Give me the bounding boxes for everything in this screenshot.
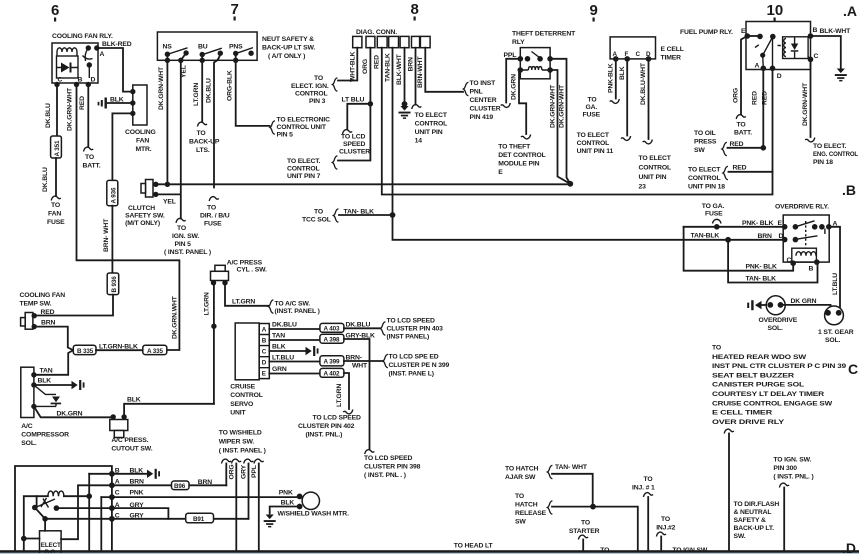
svg-text:LTS.: LTS. (196, 147, 210, 154)
svg-text:CANISTER PURGE SOL: CANISTER PURGE SOL (712, 382, 804, 389)
wire WHT-BLK to elect ign control pin 3 (338, 48, 357, 81)
connector A351 (51, 136, 62, 158)
svg-text:DIAG. CONN.: DIAG. CONN. (356, 29, 397, 36)
svg-text:A/C: A/C (21, 423, 32, 430)
cooling fan relay diode (57, 56, 79, 78)
wire RED to batt (87, 85, 89, 148)
svg-text:BATT.: BATT. (83, 163, 101, 170)
svg-text:BLK: BLK (619, 66, 626, 80)
svg-text:PNK-BLK: PNK-BLK (608, 63, 615, 93)
connector B936 (107, 273, 119, 295)
wire ORG (235, 464, 237, 552)
connector A399 (320, 356, 344, 366)
svg-text:INST PNL CTR CLUSTER P C PIN: INST PNL CTR CLUSTER P C PIN 39 (712, 363, 846, 370)
svg-text:NEUT SAFETY &: NEUT SAFETY & (262, 36, 314, 43)
svg-text:CLUSTER PE N 399: CLUSTER PE N 399 (389, 362, 450, 369)
wire TAN-WHT (552, 474, 593, 507)
svg-text:TO INST: TO INST (470, 80, 497, 87)
svg-text:TO ELECT: TO ELECT (688, 167, 721, 174)
connector A403 (320, 323, 344, 332)
svg-text:CYL . SW.: CYL . SW. (237, 267, 268, 274)
svg-text:BRN: BRN (41, 320, 56, 327)
wire DK.GRN-WHT long from relay B (77, 85, 180, 351)
svg-text:CLUTCH: CLUTCH (128, 205, 155, 212)
svg-text:COOLING FAN RLY.: COOLING FAN RLY. (52, 33, 113, 40)
svg-text:YEL: YEL (181, 65, 188, 78)
windshield washer motor (302, 492, 319, 509)
wire LT.GRN to back-up lts (201, 55, 203, 122)
svg-text:INJ.#2: INJ.#2 (656, 525, 675, 532)
svg-text:LT.GRN: LT.GRN (204, 292, 211, 315)
svg-text:TO: TO (581, 520, 590, 527)
svg-text:TO HEAD LT: TO HEAD LT (454, 543, 494, 550)
svg-text:NS: NS (163, 44, 173, 51)
wire BLK from cutout switch up (124, 404, 214, 417)
wire BLK-WHT to ground (404, 48, 406, 103)
connector A402 (320, 368, 344, 377)
svg-text:CLUSTER: CLUSTER (470, 106, 501, 113)
neutral safety switch box (157, 32, 257, 60)
svg-text:DK.GRN-WHT: DK.GRN-WHT (558, 84, 565, 128)
svg-text:PIN 3: PIN 3 (309, 98, 326, 105)
svg-text:GRN: GRN (272, 366, 287, 373)
svg-text:COOLING FAN: COOLING FAN (20, 292, 66, 299)
svg-text:SPEED: SPEED (343, 141, 366, 148)
svg-text:ORG: ORG (362, 59, 369, 74)
svg-text:RED: RED (41, 309, 55, 316)
ground at overdrive sol (762, 304, 767, 306)
connector A335 (143, 345, 167, 354)
wire RED to oil press sw (728, 68, 764, 148)
svg-text:A 403: A 403 (324, 326, 340, 333)
svg-text:TO ELECT: TO ELECT (639, 155, 672, 162)
svg-text:DK.GRN.WHT: DK.GRN.WHT (172, 295, 179, 339)
svg-text:A 936: A 936 (111, 187, 118, 203)
connector row C GRY with B91 (45, 518, 248, 520)
svg-text:PNK: PNK (130, 490, 144, 497)
connector A936 (107, 180, 118, 205)
svg-text:LT.BLU: LT.BLU (272, 355, 294, 362)
wire PPL (506, 59, 520, 103)
svg-text:CLUSTER PIN 403: CLUSTER PIN 403 (387, 326, 444, 333)
svg-text:UNIT PIN 18: UNIT PIN 18 (688, 184, 725, 191)
harness dot feed (21, 536, 27, 542)
svg-text:LT.GRN: LT.GRN (336, 384, 343, 407)
wire DK.BLU-WHT to elect control unit pin 23 (648, 59, 650, 139)
svg-text:BLK: BLK (281, 500, 295, 507)
wire hatch release to bus (552, 507, 638, 551)
wire DK.GRN-WHT pair from theft relay (550, 59, 570, 184)
svg-text:UNIT PIN: UNIT PIN (415, 129, 443, 136)
svg-text:FUSE: FUSE (204, 221, 222, 228)
svg-text:DK GRN: DK GRN (791, 298, 817, 305)
svg-text:TCC SOL: TCC SOL (302, 217, 331, 224)
svg-text:BLK: BLK (127, 397, 141, 404)
svg-text:PIN 5: PIN 5 (175, 241, 192, 248)
svg-text:CONTROL: CONTROL (577, 140, 610, 147)
e-cell timer box (610, 37, 655, 59)
svg-text:TO: TO (588, 97, 597, 104)
svg-text:SOL.: SOL. (825, 337, 841, 344)
svg-text:D: D (91, 77, 96, 84)
svg-text:BLK-RED: BLK-RED (102, 41, 132, 48)
svg-text:AJAR SW: AJAR SW (505, 474, 536, 481)
svg-text:SOL.: SOL. (21, 440, 37, 447)
svg-text:PIN 18: PIN 18 (813, 159, 833, 166)
svg-text:B 335: B 335 (77, 348, 94, 355)
svg-text:CONTROL: CONTROL (639, 165, 672, 172)
svg-text:FUSE: FUSE (47, 219, 65, 226)
svg-text:DK.GRN: DK.GRN (511, 74, 518, 100)
svg-text:CRUISE: CRUISE (230, 384, 255, 391)
svg-text:STARTER: STARTER (569, 528, 600, 535)
svg-text:DK.BLU: DK.BLU (45, 103, 52, 128)
svg-text:OVER DRIVE RLY: OVER DRIVE RLY (712, 419, 785, 426)
harness vertical wires (88, 474, 90, 551)
svg-text:TO ELECTRONIC: TO ELECTRONIC (277, 117, 331, 124)
cooling fan relay switch (86, 45, 91, 50)
svg-text:DK.GRN-WHT: DK.GRN-WHT (802, 82, 809, 126)
svg-text:(M/T ONLY): (M/T ONLY) (125, 220, 160, 227)
svg-text:TO IGN. SW.: TO IGN. SW. (773, 457, 811, 464)
svg-text:ELECT: ELECT (41, 542, 61, 549)
svg-text:ORG: ORG (228, 464, 235, 479)
svg-text:ENG. CONTROL: ENG. CONTROL (813, 151, 858, 158)
svg-text:TIMER: TIMER (661, 55, 682, 62)
svg-text:BATT.: BATT. (734, 130, 752, 137)
cooling fan motor connector (133, 85, 147, 125)
svg-text:ORG: ORG (733, 88, 740, 103)
svg-text:TO HATCH: TO HATCH (505, 466, 539, 473)
svg-text:FUSE: FUSE (705, 211, 723, 218)
svg-text:C: C (115, 490, 120, 497)
wire ORG to elect control unit pin 7 (338, 48, 370, 161)
svg-text:TAN: TAN (272, 333, 285, 340)
svg-text:1 ST. GEAR: 1 ST. GEAR (818, 329, 854, 336)
svg-text:TAN- WHT: TAN- WHT (555, 464, 588, 471)
svg-text:W/SHIELD WASH MTR.: W/SHIELD WASH MTR. (278, 511, 350, 518)
1st gear sol (825, 306, 844, 325)
svg-text:TAN-BLK: TAN-BLK (384, 53, 391, 82)
wire LT.BLU from pin A to 1st gear sol (829, 227, 840, 311)
svg-text:CLUSTER PIN 402: CLUSTER PIN 402 (298, 423, 355, 430)
svg-text:& NEUTRAL: & NEUTRAL (734, 509, 772, 516)
svg-text:BRN: BRN (758, 233, 773, 240)
svg-text:TO A/C SW.: TO A/C SW. (275, 301, 311, 308)
wire BRN-WHT to inst pnl center cluster (425, 48, 463, 92)
svg-text:( INST. PANEL ): ( INST. PANEL ) (164, 249, 211, 256)
wire YEL from box to ign switch (156, 53, 186, 218)
svg-text:PIN 419: PIN 419 (470, 114, 494, 121)
svg-text:FUEL PUMP RLY.: FUEL PUMP RLY. (680, 29, 733, 36)
svg-text:SEAT BELT BUZZER: SEAT BELT BUZZER (712, 372, 794, 379)
relay coil and diode (783, 37, 809, 59)
connector B96 (172, 481, 190, 490)
wire LT.GRN to A/C SW (225, 283, 268, 306)
svg-text:A: A (115, 478, 120, 485)
svg-text:ORG-BLK: ORG-BLK (227, 70, 234, 101)
svg-text:A: A (100, 51, 105, 58)
svg-text:CONTROL UNIT: CONTROL UNIT (277, 124, 327, 131)
svg-text:D: D (262, 360, 267, 367)
wire DK.GRN to cutout switch (34, 406, 113, 417)
svg-text:FUSE: FUSE (583, 112, 601, 119)
svg-text:HEATED REAR WDO SW: HEATED REAR WDO SW (712, 354, 807, 361)
svg-text:A/C PRESS.: A/C PRESS. (111, 437, 148, 444)
svg-text:TO W/SHIELD: TO W/SHIELD (219, 430, 262, 437)
svg-text:INJ. # 1: INJ. # 1 (632, 485, 655, 492)
svg-text:BLK-WHT: BLK-WHT (820, 28, 852, 35)
wire BLK-RED from A to fan motor (97, 48, 133, 92)
overdrive sol (766, 296, 785, 315)
svg-text:CLUSTER PIN 398: CLUSTER PIN 398 (364, 464, 421, 471)
svg-text:CLUSTER: CLUSTER (339, 149, 370, 156)
svg-text:TO OIL: TO OIL (694, 130, 716, 137)
svg-text:RED: RED (374, 55, 381, 69)
svg-text:GRY: GRY (130, 513, 145, 520)
svg-text:TO: TO (661, 516, 670, 523)
svg-text:TO: TO (197, 130, 206, 137)
svg-text:TO: TO (737, 122, 746, 129)
svg-text:UNIT PIN 7: UNIT PIN 7 (287, 173, 321, 180)
svg-text:E: E (498, 169, 503, 176)
wire RED to temp switch (35, 295, 113, 316)
svg-text:( A/T ONLY ): ( A/T ONLY ) (268, 53, 305, 60)
svg-text:DK.GRN: DK.GRN (57, 411, 83, 418)
harness feed coil (24, 496, 89, 551)
svg-text:BU: BU (198, 44, 208, 51)
svg-text:BLK: BLK (38, 378, 52, 385)
overdrive relay box (783, 215, 829, 262)
wire BLK to elect control unit pin 11 (626, 59, 628, 136)
wire PPL (258, 464, 260, 552)
svg-text:SW: SW (694, 147, 705, 154)
svg-text:D: D (777, 73, 782, 80)
svg-text:TO: TO (207, 205, 216, 212)
svg-text:10: 10 (767, 2, 784, 19)
wire NS DK.GRN-WHT (166, 54, 168, 184)
svg-text:(INST PANEL): (INST PANEL) (387, 334, 430, 341)
svg-text:SW: SW (515, 518, 526, 525)
svg-text:E CELL TIMER: E CELL TIMER (712, 410, 772, 417)
svg-text:8: 8 (411, 1, 419, 18)
svg-text:CONTROL: CONTROL (287, 166, 320, 173)
wire PNK-BLK to ga fuse (615, 59, 617, 99)
svg-text:HATCH: HATCH (515, 501, 538, 508)
svg-text:PPL: PPL (251, 465, 258, 478)
svg-text:BACK-UP LT.: BACK-UP LT. (734, 525, 775, 532)
clutch safety switch (146, 180, 154, 198)
svg-text:DK.BLU: DK.BLU (42, 167, 49, 192)
svg-text:TO: TO (85, 154, 94, 161)
svg-text:A: A (115, 502, 120, 509)
svg-text:TO ELECT.: TO ELECT. (813, 143, 847, 150)
svg-text:TAN- BLK: TAN- BLK (344, 209, 375, 216)
wire TAN from compressor sol (34, 350, 73, 375)
svg-text:TO: TO (515, 493, 524, 500)
harness switch (36, 496, 38, 506)
svg-text:TAN: TAN (40, 368, 53, 375)
wire ORG to batt (741, 36, 747, 115)
svg-text:TO: TO (712, 345, 721, 352)
theft deterrent relay box (520, 48, 550, 79)
cooling fan relay box (52, 43, 98, 83)
svg-text:BACK-UP: BACK-UP (189, 139, 220, 146)
svg-text:LT.BLU: LT.BLU (832, 273, 839, 295)
wire from TO list to bus (724, 429, 734, 433)
wire BRN up to wiper sw (225, 464, 227, 486)
svg-text:E: E (741, 28, 746, 35)
svg-text:B91: B91 (193, 516, 205, 523)
svg-text:SAFETY SW.: SAFETY SW. (125, 213, 165, 220)
connector B335 (73, 345, 96, 354)
A/C press cyl switch (215, 265, 225, 271)
cooling fan temp switch (25, 313, 33, 330)
svg-text:BLK: BLK (272, 344, 286, 351)
svg-text:B: B (813, 27, 818, 34)
wire to ELECT BC (42, 516, 48, 522)
svg-text:UNIT PIN 11: UNIT PIN 11 (577, 148, 614, 155)
A/C compressor sol connector (21, 367, 34, 417)
connector B91 (186, 513, 214, 523)
svg-text:LT.GRN: LT.GRN (193, 83, 200, 106)
svg-text:RED: RED (79, 96, 86, 110)
wire BRN-WHT from fan motor (112, 113, 132, 180)
svg-text:A 398: A 398 (324, 337, 340, 344)
svg-text:LT.GRN: LT.GRN (232, 299, 255, 306)
svg-text:PRESS: PRESS (694, 139, 717, 146)
connector A398 (320, 334, 344, 343)
svg-text:A/C PRESS: A/C PRESS (227, 260, 263, 267)
svg-text:RED: RED (752, 91, 759, 105)
svg-text:OVERDRIVE: OVERDRIVE (759, 317, 798, 324)
overdrive relay coil (792, 248, 817, 262)
svg-text:A 351: A 351 (54, 140, 61, 156)
svg-text:B96: B96 (174, 483, 186, 490)
bottom bus wire (0, 550, 859, 553)
svg-text:FAN: FAN (48, 211, 61, 218)
fuse tap symbol (713, 219, 722, 223)
harness outer wire (15, 466, 112, 551)
svg-text:OVERDRIVE RLY.: OVERDRIVE RLY. (775, 204, 829, 211)
svg-text:TO: TO (644, 476, 653, 483)
wire DK.GRN to theft det module (519, 70, 526, 134)
wire GRY (248, 464, 250, 519)
svg-text:DIR. / B/U: DIR. / B/U (200, 213, 230, 220)
svg-text:YEL: YEL (163, 199, 176, 206)
svg-text:TO LCD SPEED: TO LCD SPEED (387, 318, 436, 325)
svg-text:BLK-WHT: BLK-WHT (396, 53, 403, 85)
svg-text:PIN 300: PIN 300 (773, 465, 797, 472)
svg-text:TAN-BLK: TAN-BLK (691, 233, 720, 240)
svg-text:GRY: GRY (240, 464, 247, 479)
svg-text:9: 9 (590, 2, 598, 19)
svg-text:RELEASE: RELEASE (515, 510, 547, 517)
theft relay switch (518, 56, 524, 62)
svg-text:A: A (262, 327, 267, 334)
svg-text:MTR.: MTR. (136, 146, 152, 153)
svg-text:TO LCD SPEED: TO LCD SPEED (364, 455, 413, 462)
svg-text:B: B (809, 266, 814, 273)
svg-text:B: B (115, 468, 120, 475)
svg-text:BLK: BLK (130, 468, 144, 475)
svg-text:(INST. PANEL ): (INST. PANEL ) (275, 308, 320, 315)
connector row A BRN with B96 (61, 485, 226, 539)
svg-text:PNL: PNL (470, 89, 483, 96)
svg-text:E: E (262, 371, 266, 378)
wire TAN-BLK to tcc sol and overdrive (393, 48, 785, 240)
svg-text:(INST. PNL.): (INST. PNL.) (306, 432, 343, 439)
connector row C PNK (101, 496, 299, 498)
cooling fan relay coil (57, 48, 77, 56)
svg-text:TO: TO (314, 209, 323, 216)
svg-text:DK.GRN-WHT: DK.GRN-WHT (67, 87, 74, 131)
svg-text:TO DIR.FLASH: TO DIR.FLASH (734, 501, 780, 508)
wiper wire hooks (222, 459, 232, 463)
svg-text:E CELL: E CELL (661, 46, 684, 53)
svg-text:RED: RED (762, 91, 769, 105)
svg-text:PNS: PNS (229, 44, 243, 51)
svg-text:TO ELECT.: TO ELECT. (287, 158, 321, 165)
svg-text:C: C (636, 51, 641, 58)
svg-text:DK.BLU-WHT: DK.BLU-WHT (640, 62, 647, 105)
wire DK.BLU to fan fuse (56, 85, 58, 137)
wire PNK-BLK bottom to pin C (684, 227, 794, 271)
svg-text:C: C (848, 361, 858, 377)
svg-text:BRN: BRN (198, 479, 213, 486)
svg-text:DET CONTROL: DET CONTROL (498, 152, 545, 159)
svg-text:TO THEFT: TO THEFT (498, 144, 531, 151)
svg-text:A: A (755, 63, 760, 70)
svg-text:23: 23 (639, 184, 647, 191)
svg-text:A 399: A 399 (324, 359, 340, 366)
svg-text:( INST. PNL . ): ( INST. PNL . ) (364, 472, 406, 479)
svg-text:B: B (262, 338, 267, 345)
svg-text:TO ELECT: TO ELECT (415, 112, 448, 119)
svg-text:CONTROL: CONTROL (230, 392, 263, 399)
svg-text:TO LCD SPE ED: TO LCD SPE ED (389, 354, 439, 361)
long wire from clutch switch across page (156, 183, 571, 185)
connector row A GRY (56, 508, 168, 519)
svg-text:A 402: A 402 (324, 371, 340, 378)
svg-text:DK.GRN-WHT: DK.GRN-WHT (158, 66, 165, 110)
ELECT BC box (40, 531, 62, 554)
svg-text:DK.BLU: DK.BLU (272, 322, 297, 329)
svg-text:DK.GRN-WHT: DK.GRN-WHT (549, 84, 556, 128)
svg-text:COMPRESSOR: COMPRESSOR (21, 432, 69, 439)
svg-text:TAN- BLK: TAN- BLK (746, 276, 777, 283)
svg-text:TO: TO (314, 75, 323, 82)
svg-text:BLK: BLK (110, 97, 124, 104)
svg-text:GRY: GRY (130, 502, 145, 509)
svg-text:PIN 5: PIN 5 (277, 132, 294, 139)
wire DK.BLU to dir/bu fuse (214, 53, 220, 187)
svg-text:CONTROL: CONTROL (415, 121, 448, 128)
svg-text:BRN-WHT: BRN-WHT (417, 56, 424, 88)
svg-text:FAN: FAN (136, 138, 149, 145)
svg-text:CONTROL: CONTROL (295, 91, 328, 98)
theft relay coil (518, 67, 524, 73)
svg-text:COOLING: COOLING (125, 129, 156, 136)
svg-text:PNK: PNK (279, 489, 293, 496)
svg-text:UNIT: UNIT (230, 410, 246, 417)
svg-text:RLY: RLY (512, 39, 525, 46)
svg-text:SW.: SW. (734, 533, 746, 540)
svg-text:TEMP SW.: TEMP SW. (20, 301, 52, 308)
svg-text:CRUISE CONTROL ENGAGE SW: CRUISE CONTROL ENGAGE SW (712, 400, 833, 407)
wire LT BLU to lcd speed cluster (347, 104, 370, 130)
svg-text:6: 6 (51, 2, 59, 19)
